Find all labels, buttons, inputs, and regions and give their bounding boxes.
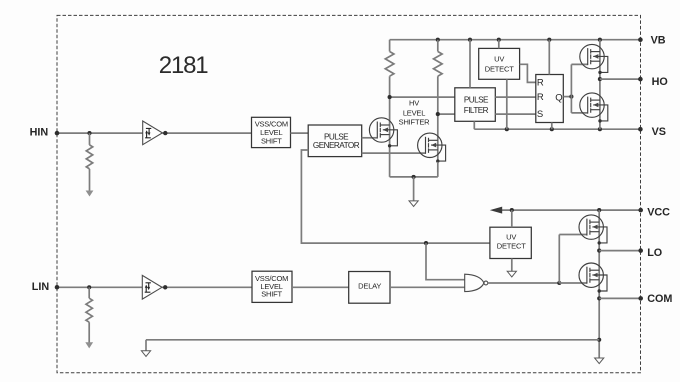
svg-text:UV: UV: [506, 233, 516, 242]
transistor M3 (HO source): [580, 44, 608, 74]
node LIN junction dot: [87, 285, 91, 289]
node buffer1 output dot: [163, 131, 167, 135]
wire latch Q output: [563, 96, 571, 98]
wire pulse filter input R: [390, 96, 455, 98]
transistor M6 (LO sink): [579, 263, 607, 293]
arrow R2 to VSS: [85, 342, 93, 348]
wire VSS rail left stub: [145, 340, 147, 351]
wire LIN pulldown upper: [88, 287, 90, 298]
box VSS/COM LEVEL SHIFT (high side): [252, 117, 291, 147]
gate NOR (low side drive): [465, 274, 484, 291]
wire UV detect VB stub: [498, 40, 500, 49]
wire pulse filter input S: [438, 113, 455, 115]
node VB rail dot at UV detect stub: [497, 38, 501, 42]
svg-text:COM: COM: [647, 293, 672, 305]
svg-text:HO: HO: [652, 76, 668, 88]
svg-text:VS: VS: [652, 126, 666, 138]
ground arrow (bottom right): [595, 358, 604, 364]
box UV DETECT (low side): [490, 227, 531, 258]
wire VB rail: [390, 39, 641, 41]
wire VSS rail bottom: [146, 339, 599, 341]
wire UV junction down to NOR input 1: [426, 243, 465, 280]
wire M4 gate lead: [571, 112, 587, 114]
node M5 source dot: [597, 249, 601, 253]
pin dot COM: [638, 296, 643, 301]
arrow R1 to VSS: [86, 191, 94, 197]
transistor M2 (level shift pulldown 2): [418, 133, 446, 163]
wire pulse filter VB stub: [469, 40, 471, 88]
node VS rail dot at latch stub: [550, 127, 554, 131]
svg-text:SHIFTER: SHIFTER: [399, 117, 430, 126]
wire M5 gate lead: [559, 234, 586, 236]
svg-text:FILTER: FILTER: [464, 106, 489, 115]
wire COM output line: [599, 297, 641, 299]
wire HIN pulldown upper: [89, 133, 91, 145]
svg-text:DELAY: DELAY: [358, 281, 381, 290]
wire level shift 2 to delay: [292, 286, 349, 288]
wire VS rail: [474, 128, 640, 130]
pin dot VCC: [638, 208, 643, 213]
wire UV detect bottom stub to VS rail: [506, 79, 508, 129]
svg-text:LEVEL: LEVEL: [403, 108, 425, 117]
svg-text:DETECT: DETECT: [497, 242, 526, 251]
wire HO half-bridge vertical: [599, 40, 601, 130]
wire HO gate drive vertical: [570, 64, 572, 113]
svg-text:SHIFT: SHIFT: [261, 136, 282, 145]
node M3 source dot: [598, 77, 602, 81]
wire delay output to NOR input 2: [390, 286, 465, 288]
svg-text:HV: HV: [409, 99, 419, 108]
resistor R4 (HV level shift load 2): [434, 52, 443, 77]
buffer U1 (HIN schmitt input): [143, 121, 163, 145]
wire HO output line: [600, 78, 641, 80]
ground arrow (level shifter): [409, 201, 418, 207]
wire LO half-bridge vertical: [598, 210, 600, 358]
node M1 drain node dot: [388, 95, 392, 99]
pin dot LO: [638, 248, 643, 253]
pin dot VB: [638, 37, 643, 42]
node VCC rail dot at UV stub: [510, 208, 514, 212]
svg-text:R: R: [537, 77, 544, 88]
node VS rail dot at M4 source: [598, 127, 602, 131]
svg-text:LIN: LIN: [32, 281, 50, 293]
node VB rail dot at latch stub: [547, 38, 551, 42]
svg-text:R: R: [537, 92, 544, 103]
wire pulse generator output 2 to M2 gate: [362, 152, 426, 154]
svg-text:S: S: [537, 109, 543, 120]
wire R2 to VSS arrow: [88, 322, 90, 342]
node NOR output junction dot: [557, 281, 561, 285]
svg-text:GENERATOR: GENERATOR: [313, 141, 360, 150]
wire M1 drain-source vertical: [389, 40, 391, 177]
svg-text:HIN: HIN: [30, 127, 49, 139]
ground arrow (UV detect 2): [507, 271, 516, 277]
transistor M4 (HO sink): [580, 93, 608, 123]
transistor M1 (level shift pulldown 1): [369, 118, 397, 148]
wire UV detect output to latch R1: [520, 64, 536, 82]
node VSS rail right dot: [597, 338, 601, 342]
wire latch VB stub: [548, 40, 550, 75]
svg-text:DETECT: DETECT: [485, 64, 514, 73]
pin dot HO: [638, 77, 643, 82]
node VB rail dot at pulse filter stub: [468, 38, 472, 42]
wire level shift to pulse generator: [291, 132, 309, 134]
node VCC rail dot at M5 drain: [597, 208, 601, 212]
svg-text:PULSE: PULSE: [464, 96, 489, 105]
wire NOR output: [488, 282, 560, 284]
node buffer2 output dot: [163, 285, 167, 289]
wire latch bottom stub: [551, 123, 553, 130]
svg-text:LO: LO: [647, 247, 662, 259]
svg-text:VCC: VCC: [647, 207, 670, 219]
svg-text:UV: UV: [494, 54, 504, 63]
wire buffer2 output to level shift box: [162, 286, 252, 288]
transistor M5 (LO source): [579, 215, 607, 245]
wire LO output line: [599, 250, 641, 252]
resistor R3 (HV level shift load 1): [385, 52, 394, 77]
buffer U2 (LIN schmitt input): [142, 275, 162, 299]
node UV feed junction: [424, 241, 428, 245]
wire pulse filter output S to latch: [495, 113, 536, 115]
svg-text:2181: 2181: [159, 52, 208, 79]
wire level shifter source rail: [390, 162, 438, 177]
wire VCC rail: [494, 209, 641, 211]
svg-text:VB: VB: [651, 35, 666, 47]
box PULSE GENERATOR: [308, 125, 362, 157]
node HIN junction dot: [87, 131, 91, 135]
wire pulse generator output 1 to M1 gate: [362, 137, 378, 139]
box latch RRS: [536, 75, 564, 123]
wire HIN input line: [57, 132, 143, 134]
node M6 source dot: [597, 296, 601, 300]
pin dot LIN: [55, 285, 60, 290]
node M2 drain node dot: [436, 112, 440, 116]
wire LO gate drive vertical: [558, 235, 560, 284]
wire M3 gate lead: [571, 63, 587, 65]
wire UV detect 2 VCC stub: [511, 210, 513, 227]
node Q output dot: [569, 95, 573, 99]
wire M6 gate lead: [559, 282, 586, 284]
wire pulse filter bottom stub to VS rail: [473, 121, 475, 129]
box DELAY: [349, 272, 390, 304]
svg-text:Q: Q: [555, 92, 562, 103]
wire UV detect 2 bottom stub: [511, 259, 513, 272]
svg-text:SHIFT: SHIFT: [261, 289, 282, 298]
node source rail dot: [412, 175, 416, 179]
wire LIN input line: [57, 286, 142, 288]
box UV DETECT (high side): [479, 48, 520, 79]
node VS rail dot at UV stub: [505, 127, 509, 131]
pin dot HIN: [55, 131, 60, 136]
box VSS/COM LEVEL SHIFT (low side): [252, 271, 292, 302]
pin dot VS: [638, 127, 643, 132]
wire pulse filter output R to latch: [495, 96, 536, 98]
node VB rail dot at R4: [436, 38, 440, 42]
arrow VCC feed: [490, 207, 502, 214]
resistor R1 (HIN pulldown): [86, 145, 92, 169]
wire UV feed to pulse generator: [301, 150, 490, 243]
ground arrow (VSS rail): [141, 351, 150, 357]
box PULSE FILTER: [455, 88, 496, 122]
wire R1 to VSS arrow: [89, 169, 91, 191]
resistor R2 (LIN pulldown): [86, 298, 92, 322]
wire buffer1 output to level shift box: [162, 132, 251, 134]
wire M2 drain-source vertical: [437, 40, 439, 162]
node VB rail dot at M3 drain: [598, 38, 602, 42]
wire source rail to ground arrow: [413, 177, 415, 201]
